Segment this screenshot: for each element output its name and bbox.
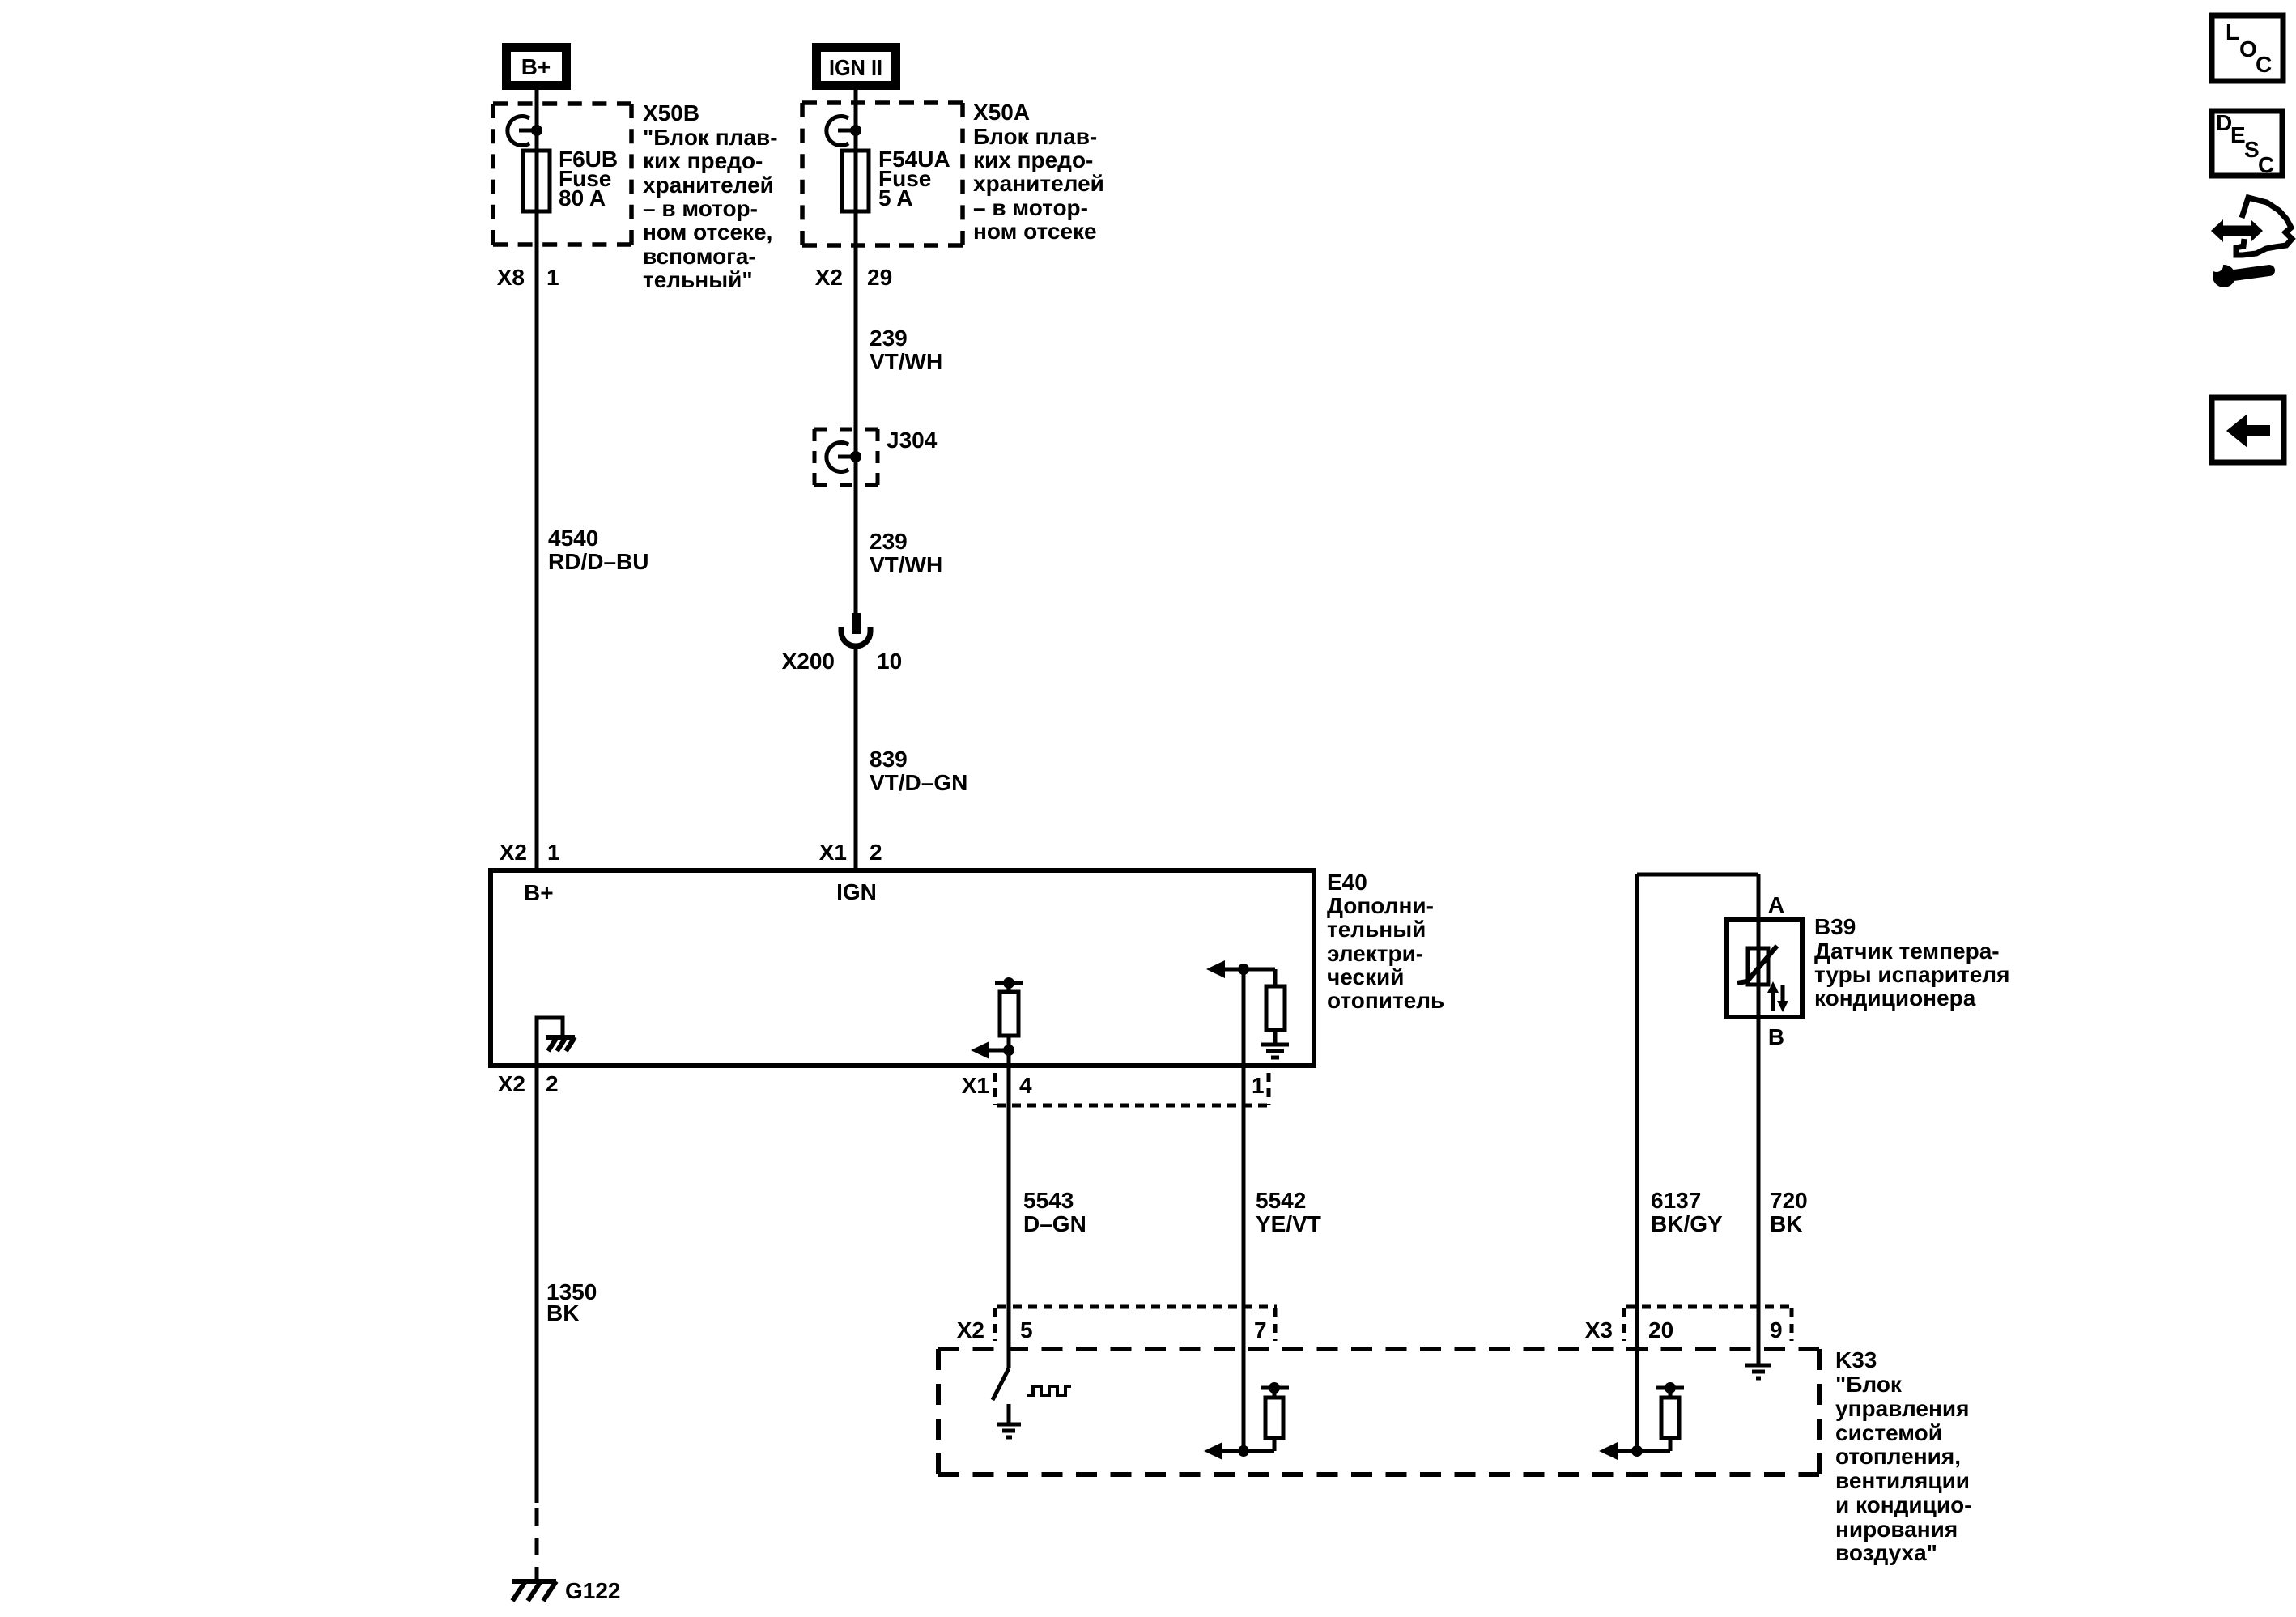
- connector X2 bracket pins 5 and 7 at K33: [957, 1307, 1277, 1343]
- svg-text:4: 4: [1019, 1073, 1032, 1098]
- svg-text:"Блок плав-: "Блок плав-: [643, 125, 778, 150]
- wire label 4540 RD/D-BU: [548, 526, 648, 574]
- svg-text:K33: K33: [1835, 1347, 1877, 1372]
- svg-text:20: 20: [1648, 1317, 1673, 1343]
- connector pin X8-1: [497, 265, 559, 290]
- svg-text:X50A: X50A: [973, 100, 1030, 125]
- svg-text:X200: X200: [782, 649, 835, 674]
- svg-text:IGN: IGN: [836, 879, 877, 904]
- wire 839 from X200 to E40 pin X1-2: [854, 648, 858, 870]
- terminal symbol in X50A: [827, 117, 861, 146]
- sensor B39 evaporator temperature: [1727, 920, 1802, 1017]
- power symbol IGN II: [812, 43, 900, 90]
- wire 5542 YE/VT from E40 X1-1 to K33 X2-7: [1244, 969, 1321, 1451]
- svg-text:хранителей: хранителей: [973, 171, 1104, 196]
- fuse F6UB 80A: [523, 147, 618, 211]
- svg-text:нирования: нирования: [1835, 1517, 1958, 1542]
- svg-text:1: 1: [546, 265, 559, 290]
- svg-text:тельный": тельный": [643, 267, 753, 292]
- wire 5543 D-GN from E40 X1-4 to K33 X2-5: [1009, 1050, 1086, 1368]
- svg-text:G122: G122: [565, 1578, 621, 1603]
- wire label 239 VT/WH upper: [870, 326, 942, 374]
- svg-text:A: A: [1768, 892, 1784, 917]
- svg-text:Датчик темпера-: Датчик темпера-: [1814, 938, 2000, 964]
- svg-text:VT/D–GN: VT/D–GN: [870, 770, 967, 795]
- icon LOC: [2212, 15, 2283, 81]
- E40 internal resistor to ground, pin X1-1 branch: [1206, 960, 1289, 1057]
- svg-text:5: 5: [1020, 1317, 1033, 1343]
- wire label 839 VT/D-GN: [870, 747, 967, 795]
- svg-text:ких предо-: ких предо-: [973, 147, 1093, 172]
- HVAC control module K33 box (dashed): [938, 1349, 1819, 1474]
- svg-text:воздуха": воздуха": [1835, 1540, 1937, 1565]
- svg-text:B+: B+: [521, 54, 551, 79]
- svg-text:5542: 5542: [1256, 1188, 1306, 1213]
- svg-text:839: 839: [870, 747, 908, 772]
- svg-text:7: 7: [1254, 1317, 1267, 1343]
- svg-text:1: 1: [547, 840, 560, 865]
- svg-text:управления: управления: [1835, 1396, 1969, 1421]
- svg-text:80 A: 80 A: [559, 185, 606, 211]
- svg-text:Дополни-: Дополни-: [1327, 893, 1434, 918]
- svg-text:X2: X2: [498, 1071, 525, 1096]
- label X50B description: [643, 100, 778, 292]
- svg-text:ном отсеке,: ном отсеке,: [643, 219, 772, 245]
- label X50A description: [973, 100, 1104, 244]
- svg-text:E40: E40: [1327, 870, 1367, 895]
- svg-text:Блок плав-: Блок плав-: [973, 124, 1097, 149]
- svg-text:1: 1: [1252, 1073, 1265, 1098]
- svg-text:2: 2: [870, 840, 882, 865]
- svg-text:туры испарителя: туры испарителя: [1814, 962, 2009, 987]
- svg-text:L: L: [2226, 19, 2239, 45]
- svg-text:RD/D–BU: RD/D–BU: [548, 549, 648, 574]
- svg-text:B: B: [1768, 1024, 1784, 1049]
- svg-text:X1: X1: [962, 1073, 989, 1098]
- connector pin X1-2 at E40: [819, 840, 882, 865]
- wire 6137 BK/GY from B39 loop to K33 X3-20: [1637, 874, 1723, 1451]
- svg-text:B39: B39: [1814, 914, 1856, 939]
- connector pin X2-29: [815, 265, 892, 290]
- svg-text:электри-: электри-: [1327, 941, 1423, 966]
- svg-text:системой: системой: [1835, 1420, 1942, 1445]
- svg-text:239: 239: [870, 529, 908, 554]
- terminal symbol in X50B: [508, 117, 542, 146]
- svg-text:– в мотор-: – в мотор-: [643, 196, 758, 221]
- svg-text:вентиляции: вентиляции: [1835, 1468, 1970, 1493]
- svg-text:9: 9: [1770, 1317, 1783, 1343]
- svg-text:и кондицио-: и кондицио-: [1835, 1492, 1972, 1517]
- svg-text:BK/GY: BK/GY: [1651, 1211, 1723, 1236]
- svg-text:D–GN: D–GN: [1023, 1211, 1086, 1236]
- label K33 description: [1835, 1347, 1972, 1565]
- svg-text:вспомога-: вспомога-: [643, 244, 756, 269]
- svg-text:YE/VT: YE/VT: [1256, 1211, 1321, 1236]
- svg-text:ном отсеке: ном отсеке: [973, 219, 1097, 244]
- label E40 description: [1327, 870, 1444, 1013]
- svg-text:отопления,: отопления,: [1835, 1444, 1961, 1469]
- svg-text:10: 10: [877, 649, 902, 674]
- wire label 239 VT/WH lower: [870, 529, 942, 577]
- E40 internal resistor, pin X1-4 branch: [971, 977, 1023, 1059]
- svg-text:C: C: [2256, 52, 2272, 77]
- svg-text:720: 720: [1770, 1188, 1808, 1213]
- connector X3 bracket pins 20 and 9 at K33: [1585, 1307, 1792, 1343]
- connector X1 bracket pins 4 and 1: [962, 1073, 1271, 1105]
- svg-text:IGN II: IGN II: [829, 55, 882, 80]
- K33 internal resistor, pin 20: [1599, 1382, 1684, 1460]
- fuse block X50B (dashed): [493, 104, 631, 245]
- svg-text:O: O: [2239, 36, 2257, 62]
- fuse block X50A (dashed): [802, 103, 963, 245]
- icon back arrow: [2212, 398, 2284, 462]
- svg-text:X2: X2: [815, 265, 843, 290]
- svg-text:6137: 6137: [1651, 1188, 1701, 1213]
- svg-text:239: 239: [870, 326, 908, 351]
- icon DESC: [2212, 110, 2282, 177]
- connector pin X2-1 at E40: [500, 840, 560, 865]
- svg-text:X50B: X50B: [643, 100, 699, 126]
- svg-text:X2: X2: [500, 840, 527, 865]
- connector pin X2-2 below E40: [498, 1071, 559, 1096]
- svg-text:E: E: [2230, 122, 2246, 147]
- wire from IGN II through fuse F54UA to splice J304: [854, 90, 858, 614]
- K33 internal ground, pin 9: [1745, 1365, 1771, 1378]
- svg-text:X3: X3: [1585, 1317, 1613, 1343]
- svg-text:C: C: [2258, 152, 2274, 177]
- icon vehicle service position: [2210, 198, 2292, 287]
- svg-text:"Блок: "Блок: [1835, 1372, 1903, 1397]
- svg-text:S: S: [2244, 137, 2260, 162]
- ground G122: [512, 1578, 621, 1603]
- svg-text:X1: X1: [819, 840, 847, 865]
- svg-text:2: 2: [546, 1071, 559, 1096]
- svg-text:BK: BK: [1770, 1211, 1802, 1236]
- fuse F54UA 5A: [842, 147, 950, 211]
- svg-text:J304: J304: [887, 428, 938, 453]
- K33 internal switch with PWM, pin 5: [993, 1368, 1071, 1437]
- svg-text:X8: X8: [497, 265, 525, 290]
- svg-text:4540: 4540: [548, 526, 598, 551]
- svg-text:VT/WH: VT/WH: [870, 349, 942, 374]
- svg-text:ческий: ческий: [1327, 964, 1404, 989]
- svg-text:5543: 5543: [1023, 1188, 1074, 1213]
- svg-text:отопитель: отопитель: [1327, 988, 1444, 1013]
- wire top loop between 6137 and B39 pin A: [1637, 873, 1758, 877]
- terminal symbol in J304: [827, 443, 861, 472]
- wire from B+ through fuse F6UB to E40 pin X2-1: [535, 90, 539, 870]
- svg-text:VT/WH: VT/WH: [870, 552, 942, 577]
- svg-text:тельный: тельный: [1327, 917, 1426, 942]
- power symbol B+: [502, 43, 571, 90]
- svg-text:ких предо-: ких предо-: [643, 148, 763, 173]
- svg-text:BK: BK: [546, 1300, 579, 1326]
- wire 1350 BK to ground G122: [537, 1066, 597, 1579]
- label B39 description: [1814, 914, 2009, 1011]
- inline connector X200 pin 10: [782, 613, 903, 674]
- svg-text:5 A: 5 A: [878, 185, 913, 211]
- wire 720 BK from B39 pin B to K33 X3-9: [1758, 874, 1808, 1364]
- heater E40 box: [491, 870, 1314, 1066]
- svg-text:B+: B+: [524, 880, 554, 905]
- splice J304 (dashed): [814, 428, 938, 485]
- svg-text:29: 29: [867, 265, 892, 290]
- E40 internal ground: [537, 1018, 575, 1066]
- svg-text:– в мотор-: – в мотор-: [973, 195, 1088, 220]
- svg-text:хранителей: хранителей: [643, 172, 774, 198]
- K33 internal resistor, pin 7: [1204, 1382, 1289, 1460]
- svg-text:кондиционера: кондиционера: [1814, 985, 1976, 1011]
- svg-text:X2: X2: [957, 1317, 984, 1343]
